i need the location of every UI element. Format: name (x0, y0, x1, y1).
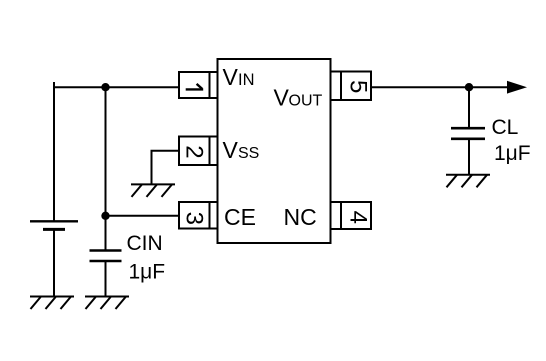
svg-text:NC: NC (284, 204, 317, 230)
svg-text:CL: CL (492, 116, 519, 139)
svg-text:1μF: 1μF (494, 142, 531, 165)
svg-text:V: V (274, 85, 290, 111)
svg-text:SS: SS (238, 145, 259, 162)
svg-text:IN: IN (238, 71, 255, 89)
svg-text:OUT: OUT (289, 93, 323, 110)
svg-text:CIN: CIN (127, 232, 163, 255)
svg-text:V: V (223, 64, 239, 90)
svg-text:2: 2 (181, 145, 208, 158)
svg-text:V: V (223, 137, 239, 163)
svg-text:5: 5 (345, 80, 372, 93)
svg-text:4: 4 (345, 211, 372, 224)
svg-text:3: 3 (181, 212, 208, 225)
svg-text:CE: CE (224, 204, 256, 230)
svg-text:1μF: 1μF (129, 261, 166, 284)
